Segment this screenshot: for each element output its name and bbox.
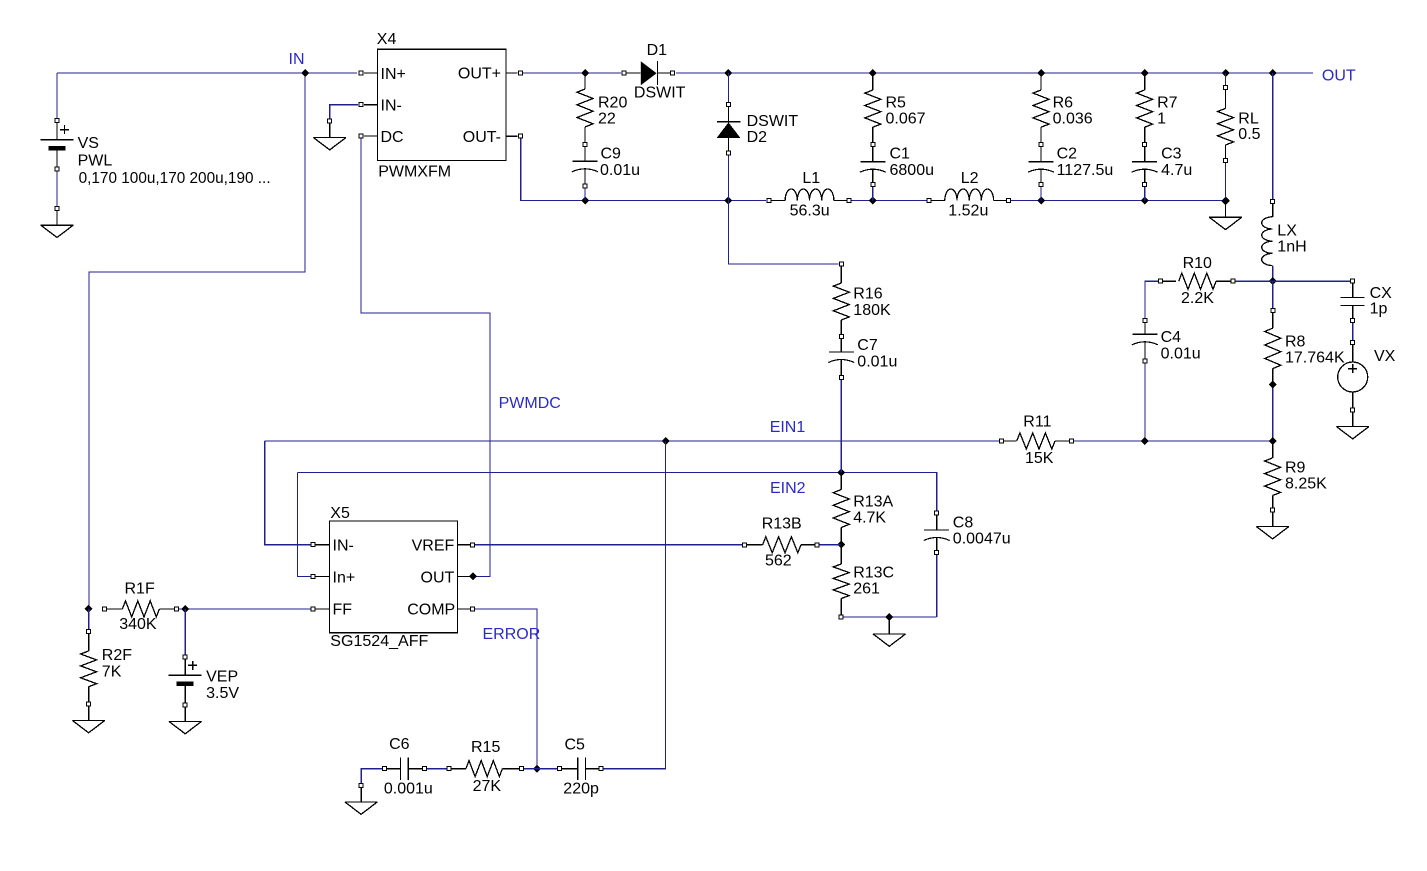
capacitor C4: [1143, 319, 1147, 323]
svg-text:OUT: OUT: [1322, 68, 1356, 85]
wire ERROR: X5 COMP to RC chain: [475, 609, 537, 769]
node top rail junction: [1222, 69, 1230, 77]
svg-text:R13B: R13B: [762, 516, 802, 533]
ground below C6: [359, 783, 363, 787]
wire C6 to R15: [427, 768, 447, 770]
resistor R20: [584, 73, 586, 89]
capacitor C6: [382, 767, 386, 771]
svg-text:LX: LX: [1277, 223, 1297, 240]
wire C7 bottom to EIN2: [840, 380, 842, 473]
svg-text:56.3u: 56.3u: [790, 203, 830, 220]
svg-text:C2: C2: [1057, 146, 1078, 163]
resistor R5: [872, 73, 874, 90]
wire R8 top: [1272, 281, 1274, 308]
wire EIN1 rail: [265, 440, 1000, 442]
resistor R8: [1271, 309, 1275, 313]
resistor R10: [1159, 279, 1163, 283]
svg-text:27K: 27K: [473, 778, 502, 795]
svg-text:17.764K: 17.764K: [1285, 350, 1345, 367]
wire C5 right up to EIN1: [603, 441, 665, 769]
node top rail junction: [869, 69, 877, 77]
wire VS bottom to ground: [56, 171, 58, 206]
svg-text:ERROR: ERROR: [483, 626, 541, 643]
svg-text:X4: X4: [377, 31, 397, 48]
svg-text:FF: FF: [333, 601, 353, 618]
wire LX bottom to R10 node: [1272, 266, 1274, 281]
wire PWMDC: X4 DC pin down to X5 OUT: [361, 136, 490, 576]
svg-text:L1: L1: [802, 170, 820, 187]
svg-text:3.5V: 3.5V: [206, 685, 239, 702]
svg-text:0.01u: 0.01u: [857, 353, 897, 370]
svg-text:OUT-: OUT-: [463, 129, 501, 146]
svg-text:0.01u: 0.01u: [1161, 346, 1201, 363]
svg-text:C3: C3: [1161, 146, 1182, 163]
wire R2F top: [88, 609, 90, 629]
svg-text:D2: D2: [747, 129, 768, 146]
X5 pin VREF: [458, 544, 471, 546]
X4 pin OUT-: [506, 135, 518, 137]
node lower rail junction: [1037, 197, 1045, 205]
svg-text:562: 562: [765, 553, 792, 570]
wire top rail OUT+ to D1: [523, 72, 621, 74]
wire C8 bottom: [936, 555, 938, 617]
svg-text:15K: 15K: [1025, 450, 1054, 467]
ground below R13C rail: [888, 617, 890, 634]
svg-text:1p: 1p: [1370, 301, 1388, 318]
node lower rail junction: [724, 197, 732, 205]
node X5 OUT pin junction: [469, 572, 477, 580]
wire VS top vertical: [56, 73, 58, 121]
voltage source VEP: [183, 655, 187, 659]
svg-text:OUT: OUT: [421, 569, 455, 586]
capacitor C8: [935, 511, 939, 515]
X4 pin IN+: [364, 72, 378, 74]
svg-text:D1: D1: [647, 42, 668, 59]
node top rail junction: [1269, 69, 1277, 77]
wire IN node down-left to R1F junction: [89, 73, 305, 609]
svg-text:X5: X5: [330, 505, 350, 522]
node top rail junction: [724, 69, 732, 77]
svg-text:PWMXFM: PWMXFM: [378, 164, 451, 181]
wire X5 IN- loop up to EIN1: [265, 441, 311, 545]
ground below VEP: [184, 707, 186, 721]
wire RL top to rail: [1225, 73, 1227, 85]
wire VREF to R13B: [475, 544, 742, 546]
node RL ground junction: [1222, 197, 1230, 205]
svg-text:1.52u: 1.52u: [948, 203, 988, 220]
svg-text:R11: R11: [1023, 414, 1051, 431]
wire FF to R1F: [179, 608, 311, 610]
ground below R9: [1272, 512, 1274, 526]
svg-text:180K: 180K: [853, 302, 891, 319]
svg-text:261: 261: [853, 581, 880, 598]
resistor R6: [1040, 73, 1042, 90]
node top rail junction: [1037, 69, 1045, 77]
X5 pin In+: [315, 575, 329, 577]
svg-text:C1: C1: [890, 146, 911, 163]
node bottom rail ground junction: [885, 613, 893, 621]
resistor RL: [1224, 86, 1228, 90]
svg-text:1: 1: [1157, 111, 1166, 128]
wire lower rail L2 to RL: [1011, 200, 1226, 202]
node EIN2/R13A junction: [837, 469, 845, 477]
diode D1 DSWIT: [622, 71, 626, 75]
svg-text:C7: C7: [857, 337, 878, 354]
svg-text:R5: R5: [886, 95, 907, 112]
wire X4 IN- to ground: [330, 105, 358, 121]
svg-text:EIN2: EIN2: [770, 480, 806, 497]
svg-text:COMP: COMP: [407, 602, 455, 619]
svg-text:340K: 340K: [119, 616, 157, 633]
svg-text:R8: R8: [1285, 334, 1306, 351]
X4 pin OUT+: [506, 72, 518, 74]
svg-text:C9: C9: [601, 146, 622, 163]
svg-text:VEP: VEP: [206, 669, 238, 686]
ground below R2F: [88, 706, 90, 720]
svg-text:DSWIT: DSWIT: [747, 113, 799, 130]
svg-text:DSWIT: DSWIT: [634, 85, 686, 102]
svg-text:C4: C4: [1161, 329, 1182, 346]
wire lower rail L1 to L2: [851, 200, 927, 202]
resistor R13B: [743, 543, 747, 547]
wire D2 top connection: [727, 73, 729, 102]
svg-text:R9: R9: [1285, 460, 1306, 477]
wire LX top from OUT rail: [1272, 73, 1274, 199]
wire EIN2 rail: [297, 473, 936, 511]
svg-text:R7: R7: [1157, 95, 1178, 112]
svg-text:DC: DC: [381, 129, 404, 146]
svg-text:0,170 100u,170 200u,190 ...: 0,170 100u,170 200u,190 ...: [79, 170, 271, 187]
resistor R1F: [103, 607, 107, 611]
svg-text:R6: R6: [1053, 95, 1074, 112]
svg-text:IN-: IN-: [333, 538, 354, 555]
capacitor C5: [557, 767, 561, 771]
svg-text:R13A: R13A: [853, 494, 893, 511]
wire D2 bottom through rail to R16: [728, 156, 838, 265]
X5 pin FF: [315, 608, 329, 610]
svg-text:RL: RL: [1238, 110, 1259, 127]
svg-text:VREF: VREF: [412, 538, 455, 555]
voltage source VS: [55, 119, 59, 123]
svg-text:R10: R10: [1183, 255, 1212, 272]
wire R15 to C5: [524, 768, 558, 770]
svg-text:2.2K: 2.2K: [1181, 290, 1214, 307]
svg-text:R16: R16: [853, 285, 882, 302]
wire X5 In+ loop up to EIN2: [297, 473, 310, 577]
svg-text:4.7K: 4.7K: [853, 510, 886, 527]
wire OUT- down and lower rail: [521, 139, 766, 201]
inductor L2: [927, 199, 931, 203]
svg-text:CX: CX: [1370, 285, 1393, 302]
svg-text:PWMDC: PWMDC: [499, 395, 561, 412]
svg-text:R1F: R1F: [125, 581, 155, 598]
wire C9 bottom to rail: [584, 188, 586, 201]
svg-text:7K: 7K: [102, 664, 122, 681]
svg-text:R15: R15: [471, 739, 500, 756]
ground below VX: [1352, 412, 1354, 426]
svg-text:IN-: IN-: [381, 98, 402, 115]
svg-text:1nH: 1nH: [1277, 239, 1306, 256]
svg-text:IN: IN: [289, 51, 305, 68]
wire R13C bottom rail to C8: [843, 616, 936, 618]
subcircuit X5 SG1524_AFF box: [329, 521, 457, 633]
svg-text:220p: 220p: [563, 781, 599, 798]
svg-text:R20: R20: [598, 95, 627, 112]
resistor R9: [1272, 441, 1274, 458]
svg-text:R13C: R13C: [853, 564, 894, 581]
svg-text:6800u: 6800u: [890, 162, 935, 179]
wire C1 bottom to rail: [872, 187, 874, 201]
wire RL bottom to rail: [1225, 163, 1227, 201]
capacitor C9: [584, 147, 586, 162]
ground below VS: [41, 225, 74, 237]
node ERROR/R15/C5 junction: [533, 765, 541, 773]
wire R8 bottom to EIN1: [1272, 385, 1274, 442]
wire C4 bottom to EIN1: [1144, 364, 1146, 442]
wire C2 bottom to rail: [1040, 187, 1042, 201]
svg-text:EIN1: EIN1: [770, 419, 806, 436]
wire R10 left to C4: [1145, 281, 1158, 318]
svg-text:C8: C8: [953, 515, 974, 532]
svg-text:SG1524_AFF: SG1524_AFF: [330, 633, 428, 650]
wire R13B right to junction: [819, 544, 841, 546]
svg-text:4.7u: 4.7u: [1161, 162, 1192, 179]
capacitor C7: [840, 339, 842, 352]
node R1F/VEP junction: [181, 605, 189, 613]
node lower rail junction: [581, 197, 589, 205]
svg-text:0.067: 0.067: [886, 111, 926, 128]
ground at X4 IN-: [328, 119, 332, 123]
node top rail junction: [1141, 69, 1149, 77]
svg-text:C5: C5: [565, 737, 586, 754]
diode D2 DSWIT: [726, 103, 730, 107]
svg-text:C6: C6: [389, 736, 410, 753]
voltage source VX: [1351, 341, 1355, 345]
wire VEP top: [184, 609, 186, 655]
capacitor C1: [872, 147, 874, 162]
node EIN1/C4 junction: [1141, 437, 1149, 445]
inductor L1: [767, 199, 771, 203]
node lower rail junction: [869, 197, 877, 205]
node IN junction: [301, 69, 309, 77]
subcircuit X4 PWMXFM box: [378, 49, 506, 160]
svg-text:In+: In+: [333, 569, 356, 586]
svg-text:OUT+: OUT+: [458, 65, 501, 82]
node lower rail junction: [1222, 197, 1230, 205]
wire EIN1 right of R11: [1074, 440, 1273, 442]
resistor R13A: [840, 473, 842, 490]
ground below RL: [1225, 201, 1227, 218]
svg-text:L2: L2: [961, 170, 979, 187]
svg-text:VX: VX: [1374, 348, 1396, 365]
resistor R16: [839, 262, 843, 266]
node top rail junction: [581, 69, 589, 77]
X4 pin IN-: [364, 104, 378, 106]
node R13B/R13A/R13C junction: [837, 541, 845, 549]
svg-text:IN+: IN+: [381, 66, 406, 83]
resistor R15: [447, 767, 451, 771]
svg-text:8.25K: 8.25K: [1285, 476, 1327, 493]
resistor R7: [1144, 73, 1146, 90]
node lower rail junction: [1141, 197, 1149, 205]
svg-text:VS: VS: [78, 135, 99, 152]
wire R10 right to CX: [1235, 280, 1352, 282]
svg-text:PWL: PWL: [78, 153, 113, 170]
svg-text:0.01u: 0.01u: [600, 162, 640, 179]
svg-text:22: 22: [598, 111, 616, 128]
svg-text:0.001u: 0.001u: [384, 781, 433, 798]
inductor LX: [1271, 199, 1275, 203]
X4 pin DC: [364, 135, 378, 137]
svg-text:0.0047u: 0.0047u: [953, 531, 1011, 548]
node EIN1/R8/R9 junction: [1269, 437, 1277, 445]
svg-text:1127.5u: 1127.5u: [1057, 162, 1114, 179]
resistor R2F: [87, 629, 91, 633]
resistor R13C: [840, 545, 842, 565]
node R1F/R2F junction: [85, 605, 93, 613]
node R8 bottom pin: [1269, 381, 1277, 389]
capacitor CX: [1351, 279, 1355, 283]
svg-text:R2F: R2F: [102, 647, 132, 664]
capacitor C2: [1040, 147, 1042, 162]
X5 pin OUT: [458, 575, 471, 577]
node LX/R10/R8 junction: [1269, 277, 1277, 285]
wire top rail D1 to OUT: [676, 72, 1313, 74]
wire C6 left to ground: [361, 769, 382, 784]
X5 pin COMP: [458, 608, 471, 610]
resistor R11: [1000, 439, 1004, 443]
wire IN net: VS top to X4 IN+: [57, 72, 357, 74]
capacitor C3: [1144, 147, 1146, 162]
X5 pin IN-: [315, 544, 329, 546]
wire C3 bottom to rail: [1144, 187, 1146, 201]
wire CX bottom to VX: [1352, 323, 1354, 340]
svg-text:0.036: 0.036: [1053, 111, 1093, 128]
node EIN1/C5 junction: [662, 437, 670, 445]
svg-text:0.5: 0.5: [1238, 126, 1260, 143]
